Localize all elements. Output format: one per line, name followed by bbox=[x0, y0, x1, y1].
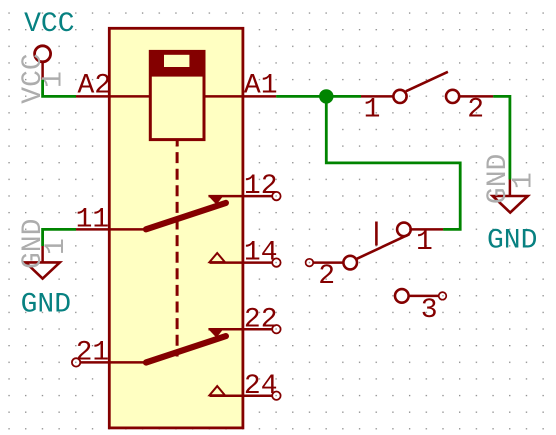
wire junction to SW2 bbox=[326, 96, 460, 229]
wire VCC to A2 bbox=[43, 80, 76, 97]
svg-text:VCC: VCC bbox=[24, 9, 74, 40]
relay contact arm 1 bbox=[146, 196, 226, 230]
relay contact arm 2 bbox=[146, 329, 226, 363]
svg-text:21: 21 bbox=[76, 338, 110, 369]
coil actuation dashed line bbox=[176, 146, 179, 357]
svg-text:12: 12 bbox=[244, 171, 278, 202]
pin 12 bbox=[209, 192, 281, 200]
pin 14 bbox=[210, 253, 281, 267]
relay body bbox=[109, 28, 243, 428]
svg-text:2: 2 bbox=[467, 94, 484, 125]
pin A2 bbox=[76, 95, 109, 98]
svg-text:14: 14 bbox=[244, 238, 278, 269]
switch SW1 bbox=[361, 72, 493, 103]
ground symbol right bbox=[493, 180, 528, 213]
pin 21 bbox=[72, 358, 144, 366]
wire A1 to switch SW1 bbox=[276, 95, 361, 98]
svg-text:GND: GND bbox=[21, 289, 71, 320]
svg-text:11: 11 bbox=[76, 205, 110, 236]
svg-text:2: 2 bbox=[318, 261, 335, 292]
svg-text:1: 1 bbox=[364, 94, 381, 125]
switch SW2 bbox=[306, 222, 444, 270]
svg-text:A1: A1 bbox=[244, 71, 278, 102]
power symbol VCC bbox=[35, 46, 51, 80]
relay coil bbox=[150, 50, 204, 146]
svg-text:A2: A2 bbox=[78, 71, 112, 102]
svg-text:1: 1 bbox=[509, 172, 540, 189]
pin 22 bbox=[209, 325, 281, 333]
wire pin11 to GND bbox=[43, 229, 76, 246]
junction bbox=[319, 89, 333, 103]
wire SW1 to GND right bbox=[493, 96, 510, 179]
pin 11 bbox=[76, 228, 144, 231]
svg-text:24: 24 bbox=[244, 371, 278, 402]
SW2 pin 3 bbox=[395, 289, 446, 303]
svg-text:GND: GND bbox=[487, 225, 537, 256]
pin A1 bbox=[243, 95, 276, 98]
ground symbol left bbox=[26, 246, 60, 279]
svg-text:3: 3 bbox=[421, 295, 438, 326]
svg-text:22: 22 bbox=[244, 304, 278, 335]
svg-text:1: 1 bbox=[416, 227, 433, 258]
svg-text:1: 1 bbox=[41, 238, 72, 255]
pin 24 bbox=[210, 386, 281, 400]
coil horizontal line A2-A1 bbox=[109, 95, 243, 98]
